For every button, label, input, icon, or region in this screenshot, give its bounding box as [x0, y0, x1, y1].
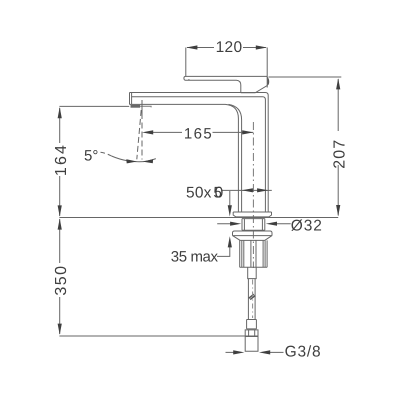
body centerline: [252, 122, 254, 268]
dimension diameter 32 arrows: [230, 222, 277, 226]
spout top edge: [130, 93, 269, 212]
35 max lower leader line: [217, 247, 230, 256]
svg-text:35 max: 35 max: [171, 249, 219, 266]
dimension 165 line: [153, 131, 253, 133]
counter line: [59, 217, 338, 219]
spout left end cap: [130, 93, 132, 105]
handle rear curve emphasis: [267, 78, 268, 84]
svg-text:50x: 50x: [186, 184, 212, 201]
dimension G3/8 arrows: [233, 350, 270, 354]
water stream centerline vertical: [141, 100, 143, 119]
hose flex ticks: [249, 294, 256, 299]
spout inner top line: [132, 97, 266, 212]
5 degree arc arrows: [126, 159, 153, 163]
dimension 350 arrows: [58, 218, 62, 334]
dimension 164 arrows: [58, 107, 62, 217]
dimension 207 extension line: [269, 76, 342, 78]
escutcheon dome: [233, 231, 273, 240]
ribbed mounting nut: [240, 240, 267, 267]
svg-text:207: 207: [331, 139, 348, 169]
svg-text:0: 0: [215, 184, 224, 201]
dimension 207 line: [337, 79, 339, 216]
hose connector: [248, 267, 257, 278]
svg-text:5°: 5°: [84, 148, 98, 165]
aerator outlet: [131, 105, 141, 108]
hose centerline: [252, 280, 254, 319]
hose end collar: [247, 320, 257, 329]
water stream tilted line: [137, 110, 141, 159]
dimension 207 arrows: [336, 78, 340, 216]
base flange: [233, 212, 271, 217]
mounting shank neck: [242, 219, 265, 231]
svg-text:G3/8: G3/8: [285, 343, 322, 360]
G3/8 end nut: [245, 330, 258, 351]
svg-text:165: 165: [184, 126, 213, 143]
dimension 164 extension line: [59, 105, 129, 107]
dimension 120 right extension: [266, 48, 268, 88]
35 max upper leader line: [229, 191, 231, 206]
svg-text:120: 120: [216, 39, 243, 56]
dimension 50x50 line: [222, 189, 271, 191]
35 max up arrow: [228, 236, 232, 247]
svg-text:350: 350: [53, 264, 70, 295]
5 degree arc: [112, 156, 156, 162]
flexible hose: [248, 279, 255, 320]
35 max down arrow: [228, 205, 232, 216]
dimension diameter 32 line: [217, 223, 291, 225]
dimension 165 arrows: [142, 130, 253, 134]
dimension 164 line: [59, 108, 61, 216]
dimension 350 line: [59, 219, 61, 334]
handle lever outline: [184, 76, 268, 92]
dimension 50x50 arrows: [242, 188, 269, 192]
dimension 120 line: [187, 47, 266, 49]
dimension G3/8 line: [226, 351, 284, 353]
svg-text:Ø32: Ø32: [291, 218, 323, 235]
dimension 120 arrows: [186, 45, 267, 49]
spout underside and inner corner: [130, 104, 239, 211]
handle tip notch: [188, 79, 190, 80]
dimension 120 left extension: [185, 48, 187, 77]
aerator lip: [140, 106, 151, 107]
5 degree leader dashes: [101, 152, 112, 156]
hose end extension line: [59, 335, 257, 337]
svg-text:164: 164: [53, 143, 70, 176]
spout underside inner arc: [229, 104, 242, 211]
